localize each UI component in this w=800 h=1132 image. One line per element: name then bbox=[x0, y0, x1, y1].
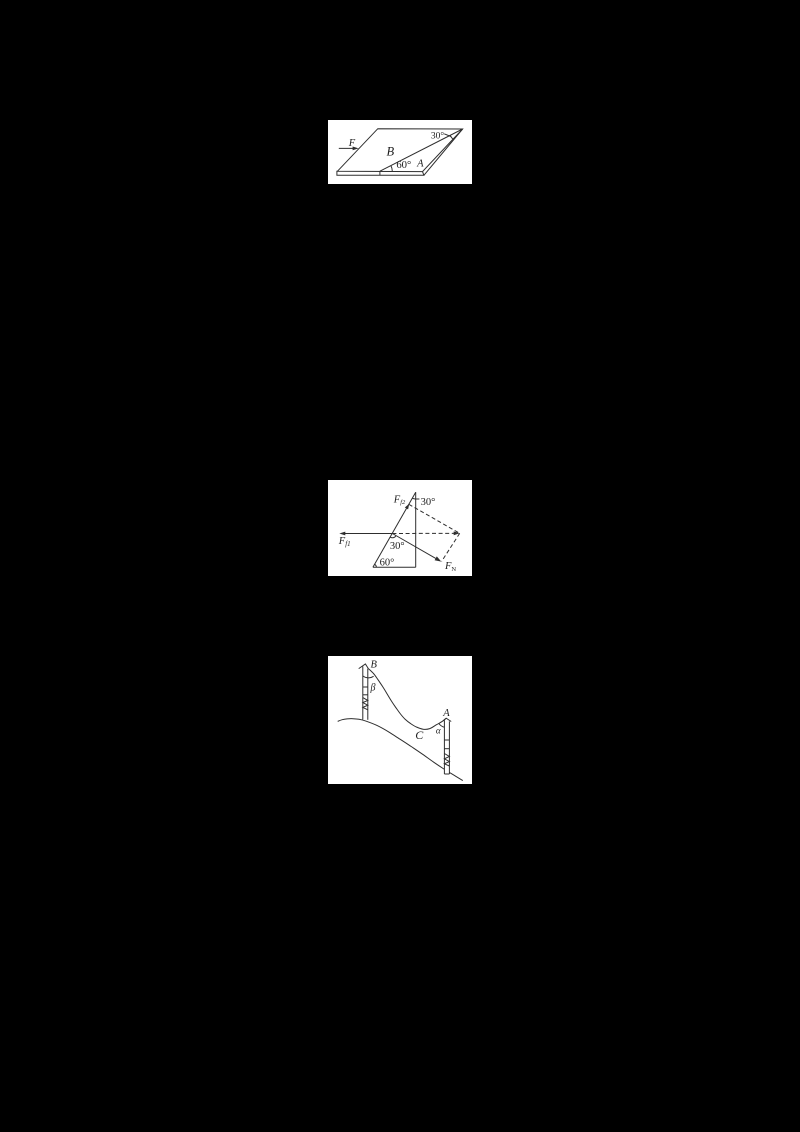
fold line tick on front edge bbox=[379, 171, 381, 175]
F_N arrow bbox=[392, 534, 438, 561]
dashed parallelogram top side bbox=[409, 504, 460, 533]
pole A pointed top bbox=[443, 718, 451, 721]
pole B zigzag bbox=[363, 698, 368, 710]
pole A left edge bbox=[443, 720, 445, 774]
apex 30 arc with tick bbox=[412, 497, 419, 500]
alpha arc bbox=[439, 723, 445, 727]
svg-text:30°: 30° bbox=[421, 497, 436, 508]
mid 30 arc bbox=[390, 536, 396, 538]
svg-text:Ff2: Ff2 bbox=[393, 494, 406, 506]
pole A zigzag bbox=[444, 754, 449, 767]
pole A ticks bbox=[444, 739, 449, 741]
60 arc at base vertex bbox=[375, 564, 377, 567]
figure 3: two poles with cable on hillside bbox=[328, 656, 472, 784]
figure 1: board with force F bbox=[328, 120, 472, 184]
pole A with white fill bbox=[444, 720, 449, 774]
svg-text:A: A bbox=[442, 708, 450, 719]
svg-text:α: α bbox=[436, 726, 441, 736]
pole B right edge bbox=[367, 669, 369, 720]
ground curve bbox=[338, 719, 463, 781]
board thickness front edge bbox=[337, 129, 463, 175]
svg-text:F: F bbox=[348, 138, 356, 149]
beta arc bbox=[363, 676, 374, 678]
pole A right edge bbox=[448, 721, 450, 774]
svg-text:A: A bbox=[416, 158, 424, 169]
svg-text:β: β bbox=[370, 682, 376, 693]
dashed parallelogram right side bbox=[442, 533, 460, 561]
svg-text:B: B bbox=[370, 660, 377, 671]
pole B left edge bbox=[362, 666, 364, 720]
incline line bbox=[373, 492, 416, 567]
30 label leader line bbox=[444, 134, 451, 137]
vertical line bbox=[415, 492, 417, 567]
svg-text:60°: 60° bbox=[396, 159, 411, 171]
crease line AB (hypotenuse) bbox=[380, 129, 463, 171]
pole B pointed top bbox=[359, 664, 369, 669]
F_f1 arrow (left) bbox=[342, 533, 392, 535]
dashed horizontal resultant bbox=[392, 532, 456, 534]
svg-text:FN: FN bbox=[444, 561, 456, 573]
pole B ticks bbox=[363, 686, 368, 688]
svg-text:B: B bbox=[386, 145, 394, 159]
pole B with white fill bbox=[363, 666, 368, 720]
figure 2: force decomposition bbox=[328, 480, 472, 576]
force F arrow bbox=[339, 147, 356, 149]
svg-text:30°: 30° bbox=[431, 130, 445, 141]
svg-text:30°: 30° bbox=[390, 541, 405, 552]
F_f2 arrowhead on incline bbox=[405, 504, 409, 510]
svg-text:Ff1: Ff1 bbox=[338, 536, 351, 548]
pole A bottom bbox=[444, 773, 449, 775]
60 degree arc bbox=[391, 166, 392, 172]
30 degree arc bbox=[450, 135, 453, 139]
base line bbox=[373, 566, 416, 568]
board top face parallelogram bbox=[338, 129, 463, 172]
cable BCA bbox=[369, 669, 447, 730]
svg-text:C: C bbox=[415, 728, 424, 742]
svg-text:60°: 60° bbox=[380, 558, 395, 569]
